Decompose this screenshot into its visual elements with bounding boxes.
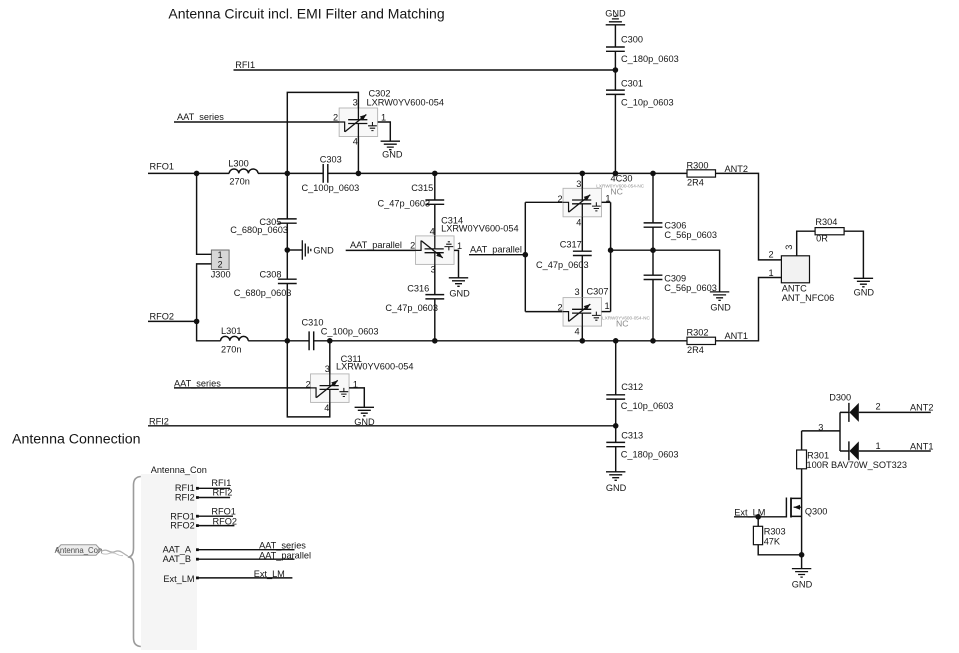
wire C311 pin4 loop (287, 341, 330, 417)
junction rail/C311 pin3 (327, 338, 333, 344)
svg-text:3: 3 (784, 245, 794, 250)
capacitor C310 (302, 318, 379, 351)
connector J300 (211, 250, 231, 280)
svg-text:C300: C300 (621, 34, 643, 44)
junction rail/C307 pin4 (580, 338, 586, 344)
svg-text:AAT_series: AAT_series (174, 378, 221, 388)
wire AAT_parallel to block (469, 254, 525, 256)
svg-text:R300: R300 (687, 160, 709, 170)
svg-text:3: 3 (325, 364, 330, 374)
ground GND top (605, 8, 626, 24)
svg-text:4C30: 4C30 (611, 173, 633, 183)
antenna ANTC (781, 256, 834, 303)
svg-text:C_47p_0603: C_47p_0603 (385, 303, 438, 313)
junction rail/C305 (285, 171, 291, 177)
wire C313 to GND (615, 447, 617, 472)
junction source/R303/GND (799, 552, 805, 558)
svg-text:Ext_LM: Ext_LM (163, 574, 194, 584)
wire R302 to ANTC pin1 (716, 278, 782, 341)
junction rail/J300 (194, 171, 200, 177)
svg-text:GND: GND (854, 287, 875, 297)
svg-text:C307: C307 (587, 286, 609, 296)
wire AAT_series to C311 pin2 (174, 387, 311, 389)
junction AAT_parallel/block (523, 252, 529, 258)
svg-text:NC: NC (616, 318, 629, 328)
wire C317 to C307 pin3 (581, 256, 583, 298)
svg-text:AAT_series: AAT_series (259, 540, 306, 550)
wire rail to C30 pin3 (581, 173, 583, 188)
svg-text:C317: C317 (560, 240, 582, 250)
trimmer capacitor C30 (NC) (563, 188, 602, 217)
wire rail to C315 (434, 173, 436, 200)
ground below C302 (381, 141, 403, 159)
svg-text:C_680p_0603: C_680p_0603 (230, 225, 288, 235)
svg-text:1: 1 (457, 241, 462, 251)
svg-text:AAT_parallel: AAT_parallel (259, 550, 311, 560)
svg-text:Q300: Q300 (805, 507, 827, 517)
svg-text:RFO1: RFO1 (211, 507, 236, 517)
junction RFI2/C312/C313 (613, 423, 619, 429)
svg-text:Ext_LM: Ext_LM (254, 569, 285, 579)
svg-text:C303: C303 (320, 154, 342, 164)
svg-text:C_56p_0603: C_56p_0603 (664, 230, 717, 240)
svg-text:C_180p_0603: C_180p_0603 (621, 54, 679, 64)
svg-text:GND: GND (449, 288, 470, 298)
capacitor C313 (606, 430, 678, 459)
svg-text:Antenna_Con: Antenna_Con (151, 465, 207, 475)
trimmer capacitor C314 (416, 236, 455, 265)
ANTC pin numbers (769, 245, 794, 279)
svg-text:ANT2: ANT2 (910, 403, 934, 413)
diode D300 (dual, common cathode) (829, 393, 859, 461)
svg-text:100R BAV70W_SOT323: 100R BAV70W_SOT323 (807, 460, 907, 470)
wire C307 pin4 to rail (581, 326, 583, 341)
svg-text:C_100p_0603: C_100p_0603 (321, 327, 379, 337)
junction gate/R303 (755, 514, 761, 520)
resistor R300 (687, 160, 716, 187)
wire C312 to C313 (615, 399, 617, 442)
sheet pin RFO2 (170, 521, 234, 531)
svg-text:C315: C315 (411, 183, 433, 193)
svg-text:R302: R302 (687, 327, 709, 337)
wire GND to C300 (614, 25, 616, 47)
transistor Q300 (N-MOSFET) (786, 498, 827, 555)
svg-text:C306: C306 (664, 221, 686, 231)
wire C305 to C308 (286, 223, 288, 279)
svg-text:GND: GND (605, 8, 626, 18)
junction rail/C302 pin4 (356, 171, 362, 177)
capacitor C306 (644, 221, 717, 241)
capacitor C303 (302, 154, 360, 192)
C30 pin numbers (558, 179, 611, 228)
svg-text:C_47p_0603: C_47p_0603 (378, 199, 431, 209)
svg-text:Antenna Connection: Antenna Connection (12, 432, 141, 448)
svg-text:ANT_NFC06: ANT_NFC06 (782, 293, 835, 303)
ground below C313 (606, 472, 627, 493)
svg-text:1: 1 (605, 301, 610, 311)
svg-text:47K: 47K (764, 536, 781, 546)
svg-text:1: 1 (876, 441, 881, 451)
brace (128, 477, 141, 647)
C314 pin numbers (410, 226, 462, 274)
junction rail/C315 (432, 171, 438, 177)
svg-text:C312: C312 (621, 382, 643, 392)
C311 pin numbers (306, 364, 358, 413)
wire to C30 pin2 (525, 201, 563, 203)
ground (sideways) at C305/C308 (302, 240, 334, 259)
svg-text:GND: GND (792, 579, 813, 589)
wire D300 anode2 to ANT2 (859, 411, 931, 413)
svg-text:C313: C313 (621, 430, 643, 440)
svg-text:NC: NC (610, 186, 623, 196)
svg-text:L301: L301 (221, 326, 241, 336)
svg-text:C_100p_0603: C_100p_0603 (302, 183, 360, 193)
svg-text:1: 1 (218, 250, 223, 260)
svg-text:RFI1: RFI1 (235, 60, 255, 70)
squiggle link (101, 550, 128, 556)
trimmer capacitor C307 (NC) (563, 298, 602, 327)
wire to C307 pin2 (525, 311, 563, 313)
wire source to GND (801, 555, 803, 569)
sheet pin AAT_A (163, 545, 295, 555)
svg-text:C301: C301 (621, 78, 643, 88)
wire gate to R303 (757, 517, 759, 527)
junction pin1 vertical/GND line (608, 247, 614, 253)
wire RFO2 rail to R302 (314, 340, 687, 342)
wire RFO1 rail to C303 (258, 172, 323, 174)
resistor R302 (687, 327, 716, 355)
wire C311 pin1 to GND (349, 388, 364, 407)
wire RFO2 rail to C312 (615, 341, 617, 395)
svg-text:C316: C316 (407, 283, 429, 293)
resistor R301 (797, 450, 907, 470)
svg-text:D300: D300 (829, 393, 851, 403)
wire J300 pin2 to RFO2 (197, 264, 221, 341)
resistor R303 (753, 526, 785, 546)
wire C30 pin1 (602, 201, 611, 203)
svg-text:4: 4 (575, 326, 580, 336)
trimmer capacitor C302 (339, 108, 378, 137)
svg-text:2: 2 (558, 194, 563, 204)
capacitor C315 (378, 183, 445, 209)
wire C306 to C309 (652, 227, 654, 275)
junction rail/C316 (432, 338, 438, 344)
svg-text:270n: 270n (229, 177, 249, 187)
svg-text:C_10p_0603: C_10p_0603 (621, 401, 674, 411)
sheet pin AAT_B (163, 554, 295, 564)
svg-text:2: 2 (769, 250, 774, 260)
junction rail/C309 (650, 338, 656, 344)
wire Ext_LM to gate (734, 516, 786, 518)
ground below C311 (354, 407, 375, 427)
svg-text:C308: C308 (260, 269, 282, 279)
junction rail/C306 (650, 171, 656, 177)
capacitor C301 (606, 78, 674, 107)
ground below C314 (449, 278, 470, 299)
svg-text:R303: R303 (764, 527, 786, 537)
sheet pin Ext_LM (163, 574, 292, 584)
svg-text:2: 2 (410, 241, 415, 251)
ground mid right (710, 292, 731, 313)
svg-text:2: 2 (333, 113, 338, 123)
wire R300 to ANTC pin2 (716, 173, 782, 260)
wire D300 pin3 to R301 (802, 430, 840, 432)
svg-text:C_56p_0603: C_56p_0603 (664, 283, 717, 293)
svg-text:ANT2: ANT2 (725, 164, 749, 174)
junction rail/C308 (285, 338, 291, 344)
svg-text:2: 2 (558, 302, 563, 312)
svg-text:C_10p_0603: C_10p_0603 (621, 97, 674, 107)
svg-text:ANT1: ANT1 (910, 441, 934, 451)
sheet pin RFO1 (170, 512, 233, 522)
wire to side ground (287, 249, 302, 251)
svg-text:3: 3 (575, 287, 580, 297)
svg-text:LXRW0YV600-054: LXRW0YV600-054 (336, 362, 413, 372)
wire C315 to C314 (434, 204, 436, 236)
svg-text:ANT1: ANT1 (725, 331, 749, 341)
D300 pin numbers (818, 402, 880, 451)
wire C308 to RFO2 rail (286, 284, 288, 341)
svg-text:RFO2: RFO2 (170, 521, 195, 531)
svg-text:RFO2: RFO2 (213, 516, 238, 526)
sheet pin RFI2 (175, 493, 230, 503)
capacitor C309 (644, 273, 717, 293)
wire ANTC pin3 to R304 (797, 231, 815, 256)
wire C300 to C301 (614, 51, 616, 90)
wire mid GND line (611, 250, 720, 292)
svg-text:R304: R304 (815, 217, 837, 227)
svg-text:RFI2: RFI2 (149, 416, 169, 426)
svg-text:4: 4 (576, 217, 581, 227)
svg-text:2: 2 (218, 260, 223, 270)
wire C316 to RFO2 rail (434, 299, 436, 341)
trimmer capacitor C311 (311, 374, 350, 403)
svg-text:1: 1 (381, 113, 386, 123)
wire C311 pin3 (329, 341, 331, 374)
svg-text:C_47p_0603: C_47p_0603 (536, 260, 589, 270)
wire RFI1 (234, 69, 616, 71)
svg-text:RFO2: RFO2 (150, 312, 175, 322)
svg-text:AAT_parallel: AAT_parallel (350, 240, 402, 250)
wire R303 to source (758, 545, 801, 555)
svg-text:GND: GND (382, 149, 403, 159)
capacitor C317 (536, 240, 592, 270)
wire C30/C307 pin1 vertical (610, 202, 612, 311)
off-page connector Antenna_Con (55, 545, 103, 555)
svg-text:L300: L300 (228, 158, 248, 168)
C307 pin numbers (558, 287, 610, 336)
junction rail/C312 (613, 338, 619, 344)
svg-text:J300: J300 (211, 270, 231, 280)
svg-text:RFI2: RFI2 (175, 493, 195, 503)
svg-text:1: 1 (769, 268, 774, 278)
junction C306/C309/GND line (650, 247, 656, 253)
svg-text:RFI2: RFI2 (213, 487, 233, 497)
sheet pin RFI1 (175, 483, 230, 493)
wire C302 pin4 (357, 137, 359, 174)
svg-text:GND: GND (606, 483, 627, 493)
junction rail/C30 pin3 (580, 171, 586, 177)
ground right of R304 (854, 278, 875, 297)
wire C302 pin1 to GND (378, 122, 391, 141)
svg-text:C_680p_0603: C_680p_0603 (234, 288, 292, 298)
wire RFO1 rail to R300 (328, 172, 687, 174)
junction RFO2/J300 (194, 319, 200, 325)
wire RFO2 stub (148, 320, 197, 322)
capacitor C300 (606, 34, 679, 64)
wire D300 cathode common (840, 412, 849, 451)
junction RFI1/C300/C301 (613, 67, 619, 73)
svg-text:C309: C309 (664, 273, 686, 283)
svg-text:2: 2 (876, 402, 881, 412)
svg-text:270n: 270n (221, 344, 241, 354)
svg-text:GND: GND (710, 303, 731, 313)
svg-text:0R: 0R (816, 234, 828, 244)
wire C314 pin1 to GND (454, 250, 458, 277)
junction rail/C301 (613, 171, 619, 177)
svg-text:Antenna Circuit incl. EMI Filt: Antenna Circuit incl. EMI Filter and Mat… (168, 6, 444, 22)
wire C309 to RFO2 rail (652, 280, 654, 341)
svg-text:AAT_B: AAT_B (163, 554, 191, 564)
svg-text:RFO1: RFO1 (150, 162, 175, 172)
ground below Q300 (792, 569, 813, 590)
wire AAT_parallel to C314 pin2 (346, 249, 416, 251)
junction C305/C308/GND (285, 247, 291, 253)
wire R301 to Q300 drain (801, 469, 803, 499)
sheet block background (141, 474, 197, 650)
capacitor C305 (230, 217, 297, 235)
wire rail to C305 (286, 173, 288, 219)
wire RFO2 rail to C310 (248, 340, 309, 342)
wire AAT_series to C302 pin2 (174, 121, 339, 123)
svg-text:4: 4 (353, 137, 358, 147)
svg-text:LXRW0YV600-054: LXRW0YV600-054 (441, 224, 518, 234)
svg-text:GND: GND (313, 245, 334, 255)
wire R304 to GND (844, 231, 863, 278)
svg-text:4: 4 (430, 226, 435, 236)
wire C30 pin4 to C317 (581, 217, 583, 251)
inductor L300 (228, 158, 258, 186)
svg-text:4: 4 (324, 403, 329, 413)
resistor R304 (815, 217, 844, 243)
wire RFO1 rail left (148, 172, 229, 174)
capacitor C316 (385, 283, 444, 313)
wire C302 pin3 loop (287, 92, 358, 173)
svg-text:2R4: 2R4 (687, 178, 704, 188)
wire pin3 down to R301 (801, 431, 803, 450)
wire rail to C306 (652, 173, 654, 223)
svg-text:3: 3 (353, 98, 358, 108)
svg-text:Antenna_Con: Antenna_Con (55, 546, 103, 555)
wire C301 to RFO1 rail (614, 94, 616, 173)
svg-text:AAT_series: AAT_series (177, 112, 224, 122)
wire block left vertical (524, 202, 526, 311)
wire D300 anode1 to ANT1 (859, 450, 931, 452)
inductor L301 (221, 326, 249, 355)
svg-text:2R4: 2R4 (687, 345, 704, 355)
capacitor C308 (234, 269, 297, 298)
wire C307 pin1 (602, 311, 611, 313)
svg-text:3: 3 (576, 179, 581, 189)
C302 pin numbers (333, 98, 386, 147)
svg-text:AAT_parallel: AAT_parallel (470, 244, 522, 254)
svg-text:LXRW0YV600-054: LXRW0YV600-054 (367, 97, 444, 107)
wire J300 pin1 to RFO1 (197, 173, 212, 254)
wire C314 to C316 (434, 264, 436, 294)
wire RFI2 (148, 425, 616, 427)
svg-text:C_180p_0603: C_180p_0603 (621, 450, 679, 460)
capacitor C312 (606, 382, 673, 411)
